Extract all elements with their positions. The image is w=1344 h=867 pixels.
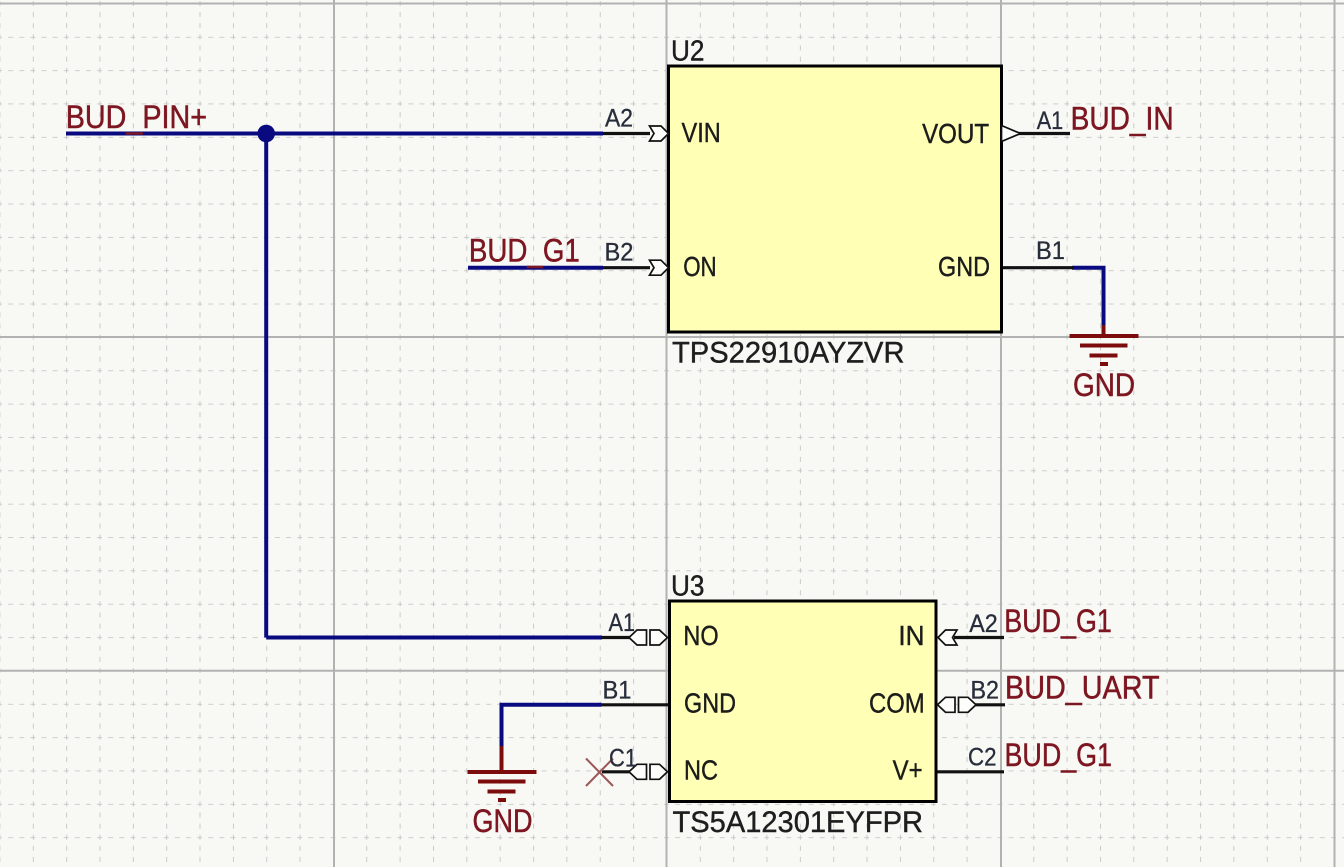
svg-text:C1: C1 <box>609 745 637 773</box>
svg-text:B1: B1 <box>1036 237 1065 265</box>
svg-text:BUD_G1: BUD_G1 <box>469 233 580 269</box>
svg-text:VIN: VIN <box>682 117 721 148</box>
svg-text:B1: B1 <box>603 676 632 704</box>
svg-text:A2: A2 <box>969 610 998 638</box>
svg-text:V+: V+ <box>893 755 923 786</box>
svg-text:NC: NC <box>684 755 718 786</box>
svg-text:BUD_PIN+: BUD_PIN+ <box>66 99 207 135</box>
svg-text:BUD_IN: BUD_IN <box>1071 101 1174 137</box>
svg-text:COM: COM <box>869 688 925 719</box>
svg-text:A1: A1 <box>609 609 636 637</box>
svg-text:GND: GND <box>1073 367 1135 403</box>
svg-text:ON: ON <box>683 251 717 282</box>
svg-text:U3: U3 <box>671 571 705 603</box>
svg-text:BUD_UART: BUD_UART <box>1005 669 1160 705</box>
svg-text:GND: GND <box>473 803 533 839</box>
svg-text:U2: U2 <box>671 36 705 68</box>
svg-text:BUD_G1: BUD_G1 <box>1004 603 1112 639</box>
svg-text:B2: B2 <box>971 676 1000 704</box>
svg-text:BUD_G1: BUD_G1 <box>1005 737 1113 773</box>
svg-text:VOUT: VOUT <box>922 118 989 149</box>
svg-text:IN: IN <box>898 620 924 651</box>
svg-text:B2: B2 <box>605 239 634 267</box>
svg-text:C2: C2 <box>968 743 997 771</box>
svg-text:GND: GND <box>938 251 990 282</box>
svg-text:A1: A1 <box>1037 107 1064 135</box>
svg-text:NO: NO <box>683 620 718 651</box>
svg-text:A2: A2 <box>605 105 633 133</box>
svg-text:TS5A12301EYFPR: TS5A12301EYFPR <box>673 806 924 839</box>
svg-text:GND: GND <box>684 688 736 719</box>
svg-text:TPS22910AYZVR: TPS22910AYZVR <box>672 337 905 370</box>
